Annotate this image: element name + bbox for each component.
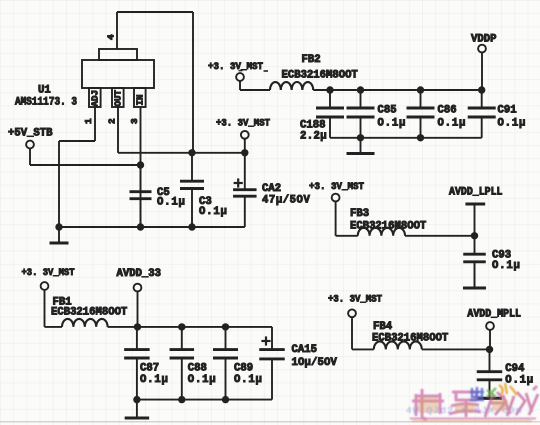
svg-text:C86: C86 <box>438 105 457 117</box>
svg-text:AVDD_MPLL: AVDD_MPLL <box>467 309 521 321</box>
svg-text:2: 2 <box>107 118 118 124</box>
svg-text:IN: IN <box>135 94 146 105</box>
svg-text:AVDD_33: AVDD_33 <box>117 268 162 280</box>
svg-text:+5V_STB: +5V_STB <box>8 128 53 140</box>
svg-text:O.1μ: O.1μ <box>505 375 534 387</box>
svg-text:O.1μ: O.1μ <box>157 197 186 209</box>
svg-text:AVDD_LPLL: AVDD_LPLL <box>449 187 503 199</box>
svg-text:O.1μ: O.1μ <box>438 118 467 130</box>
svg-text:VDDP: VDDP <box>471 34 496 46</box>
svg-text:+3. 3V_MST: +3. 3V_MST <box>309 182 364 193</box>
svg-text:O.1μ: O.1μ <box>140 374 169 386</box>
svg-text:ADJ: ADJ <box>90 90 101 107</box>
svg-text:C91: C91 <box>498 105 517 117</box>
svg-text:47μ/5OV: 47μ/5OV <box>262 195 310 207</box>
svg-text:OUT: OUT <box>113 89 124 106</box>
svg-text:O.1μ: O.1μ <box>234 374 263 386</box>
svg-text:U1: U1 <box>38 85 51 97</box>
svg-text:3: 3 <box>129 118 140 124</box>
svg-text:O.1μ: O.1μ <box>199 206 228 218</box>
svg-text:C85: C85 <box>378 105 397 117</box>
svg-text:+3. 3V_MST: +3. 3V_MST <box>22 268 75 279</box>
svg-text:+3. 3V_MST: +3. 3V_MST <box>208 62 263 73</box>
svg-text:C87: C87 <box>140 363 159 375</box>
svg-text:2.2μ: 2.2μ <box>300 131 327 143</box>
svg-text:1: 1 <box>83 118 94 124</box>
svg-text:O.1μ: O.1μ <box>492 260 521 272</box>
svg-text:ECB3216M8OOT: ECB3216M8OOT <box>372 333 449 345</box>
svg-text:O.1μ: O.1μ <box>498 118 527 130</box>
svg-text:ECB3216M8OOT: ECB3216M8OOT <box>350 221 427 233</box>
svg-text:FB2: FB2 <box>302 54 321 66</box>
svg-text:+3. 3V_MST: +3. 3V_MST <box>216 119 270 130</box>
svg-text:O.1μ: O.1μ <box>188 374 217 386</box>
svg-text:FB4: FB4 <box>373 321 393 333</box>
svg-text:C89: C89 <box>234 363 253 375</box>
svg-text:1Oμ/5OV: 1Oμ/5OV <box>292 357 338 369</box>
svg-text:+3. 3V_MST: +3. 3V_MST <box>328 295 382 306</box>
svg-text:O.1μ: O.1μ <box>378 118 407 130</box>
svg-text:4: 4 <box>106 34 117 40</box>
svg-text:ECB3216M8OOT: ECB3216M8OOT <box>51 307 128 319</box>
svg-text:FB3: FB3 <box>350 208 369 220</box>
svg-text:CA2: CA2 <box>262 183 281 195</box>
svg-text:C88: C88 <box>188 363 207 375</box>
svg-text:4W.QJd2-X.8JX.c9m: 4W.QJd2-X.8JX.c9m <box>406 405 523 416</box>
svg-text:C94: C94 <box>505 363 525 375</box>
svg-text:ECB3216M8OOT: ECB3216M8OOT <box>282 69 359 81</box>
svg-text:AMS11173. 3: AMS11173. 3 <box>15 97 77 109</box>
svg-text:CA15: CA15 <box>292 344 317 356</box>
